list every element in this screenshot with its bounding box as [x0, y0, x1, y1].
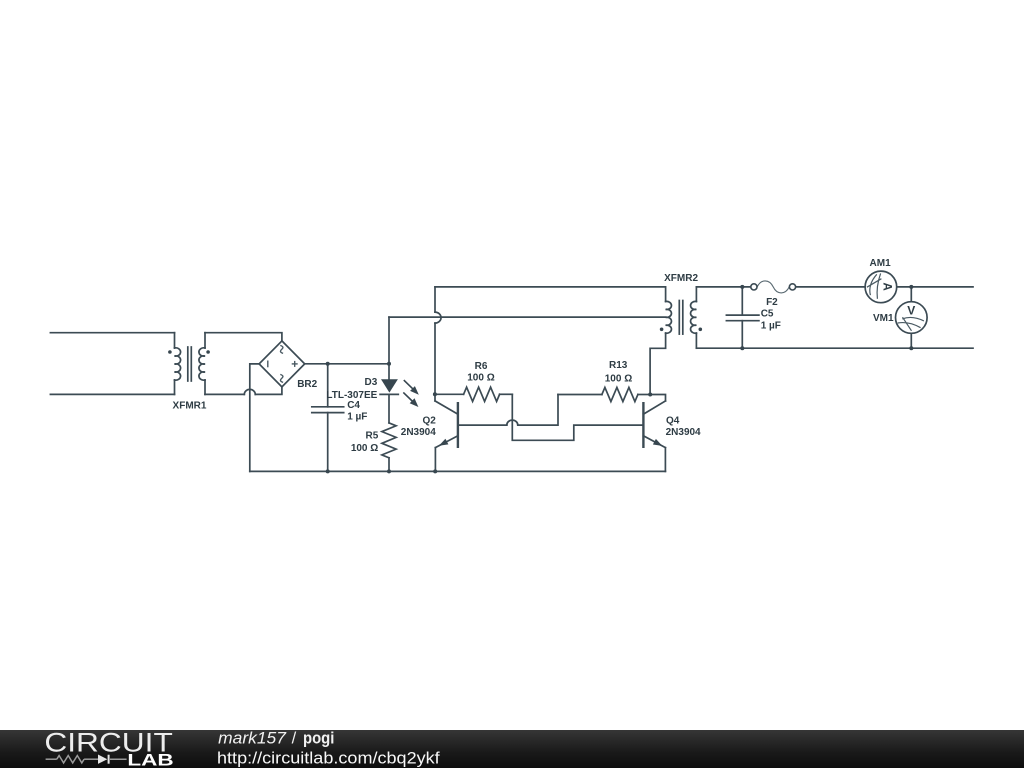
- svg-text:R6: R6: [475, 361, 488, 372]
- svg-text:R13: R13: [609, 360, 628, 371]
- svg-text:C4: C4: [347, 400, 360, 411]
- svg-text:1 µF: 1 µF: [761, 321, 781, 332]
- svg-text:D3: D3: [365, 377, 378, 388]
- svg-text:2N3904: 2N3904: [666, 427, 701, 438]
- svg-text:XFMR2: XFMR2: [664, 273, 698, 284]
- svg-text:V: V: [907, 304, 915, 318]
- svg-text:Q4: Q4: [666, 415, 680, 426]
- svg-text:mark157: mark157: [218, 730, 287, 748]
- svg-text:VM1: VM1: [873, 313, 894, 324]
- svg-text:F2: F2: [766, 297, 778, 308]
- svg-text:R5: R5: [366, 430, 379, 441]
- svg-text:pogi: pogi: [303, 730, 334, 748]
- svg-text:1 µF: 1 µF: [347, 411, 367, 422]
- svg-text:Q2: Q2: [422, 416, 436, 427]
- svg-text:http://circuitlab.com/cbq2ykf: http://circuitlab.com/cbq2ykf: [217, 749, 440, 767]
- svg-text:100 Ω: 100 Ω: [351, 443, 378, 454]
- svg-text:/: /: [292, 730, 297, 748]
- svg-text:AM1: AM1: [870, 258, 892, 269]
- svg-text:100 Ω: 100 Ω: [605, 374, 632, 385]
- svg-text:A: A: [881, 283, 893, 291]
- svg-text:XFMR1: XFMR1: [173, 401, 207, 412]
- svg-text:BR2: BR2: [297, 379, 317, 390]
- svg-text:C5: C5: [761, 308, 774, 319]
- svg-text:100 Ω: 100 Ω: [467, 373, 494, 384]
- svg-text:2N3904: 2N3904: [401, 427, 436, 438]
- svg-text:LAB: LAB: [127, 752, 173, 768]
